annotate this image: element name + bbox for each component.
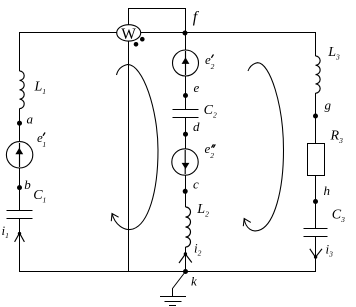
wire top horizontal — [19, 32, 316, 34]
svg-text:g: g — [325, 97, 332, 112]
svg-text:d: d — [193, 119, 200, 134]
wire middle branch bottom — [185, 247, 187, 272]
ground symbol — [160, 296, 186, 298]
node k — [183, 269, 188, 274]
current arrow i3 tip dot — [314, 255, 317, 258]
source e'1 — [6, 142, 32, 168]
current arrow i2 — [179, 254, 192, 263]
ground lead — [173, 272, 186, 297]
svg-text:1: 1 — [42, 140, 46, 149]
wire right vertical bottom segment — [315, 237, 317, 272]
source e'2 — [173, 50, 199, 76]
wire right vertical top segment — [315, 33, 317, 57]
svg-text:a: a — [27, 112, 34, 127]
source e''2 — [172, 149, 198, 175]
wattmeter polarity dot 2 — [140, 37, 145, 42]
mesh current arrow right loop — [244, 63, 283, 231]
svg-text:2: 2 — [211, 62, 215, 71]
svg-text:c: c — [193, 177, 199, 192]
svg-text:e: e — [194, 80, 200, 95]
mesh current arrow left loop — [112, 64, 158, 229]
wire left vertical mid segment — [19, 109, 21, 211]
current arrow i2 tip dot — [184, 252, 187, 255]
svg-text:2: 2 — [210, 151, 214, 160]
node a — [17, 121, 22, 126]
node b — [17, 185, 22, 190]
double prime ticks of e''2 — [212, 145, 213, 147]
inductor L2 — [186, 207, 191, 247]
current arrow i3 — [310, 249, 322, 257]
mesh arrow head right — [243, 219, 251, 227]
wattmeter polarity dot 1 — [134, 42, 139, 47]
current arrow i1 tip dot — [18, 232, 21, 235]
capacitor C2 — [173, 109, 199, 111]
node g — [313, 114, 318, 119]
wattmeter U1 voltage-coil bracket — [129, 9, 186, 33]
mesh arrow head left — [111, 214, 118, 222]
wire left vertical bottom segment — [19, 219, 21, 272]
svg-text:W: W — [121, 26, 136, 43]
wire right vertical mid segment — [315, 93, 317, 144]
resistor R3 — [308, 144, 325, 176]
wattmeter U1 voltage-coil bottom lead — [128, 41, 130, 272]
inductor L3 — [316, 56, 321, 93]
wire right vertical lower segment — [315, 175, 317, 229]
svg-text:h: h — [324, 183, 331, 198]
wire middle branch mid — [185, 118, 187, 208]
current arrow i1 — [15, 233, 25, 242]
inductor L1 — [20, 71, 25, 109]
capacitor C3 — [304, 228, 328, 230]
node h — [313, 199, 318, 204]
node d — [183, 132, 188, 137]
wire bottom horizontal — [19, 271, 316, 273]
node f — [183, 31, 188, 36]
node e — [183, 93, 188, 98]
svg-text:k: k — [191, 274, 197, 289]
prime tick of e'1 — [43, 133, 45, 135]
wire left vertical top segment — [19, 33, 21, 72]
svg-text:b: b — [24, 177, 31, 192]
capacitor C1 — [7, 210, 33, 212]
wattmeter U1 body — [117, 25, 141, 41]
node c — [183, 189, 188, 194]
wire middle branch top — [185, 33, 187, 110]
prime tick of e'2 — [212, 55, 214, 57]
